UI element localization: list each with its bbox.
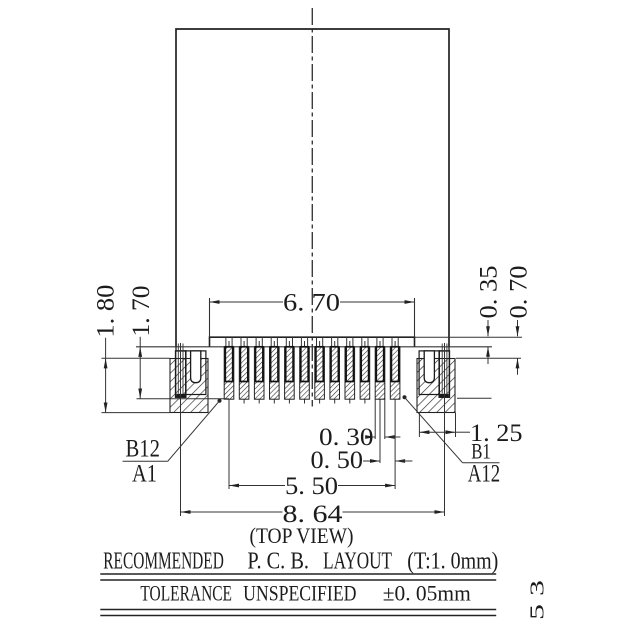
- svg-text:±0. 05mm: ±0. 05mm: [383, 581, 471, 606]
- dimension 1.25 (mounting pad width): [419, 413, 522, 447]
- double rule under note: [100, 610, 496, 616]
- caption RECOMMENDED P.C.B. LAYOUT: [103, 548, 498, 575]
- dimension 0.50 (pad pitch): [311, 404, 413, 490]
- dimension 0.35 (right, vertical): [474, 266, 503, 365]
- pad P9 (solder pad with pin): [345, 337, 355, 403]
- svg-text:RECOMMENDED: RECOMMENDED: [103, 548, 224, 575]
- svg-text:0. 50: 0. 50: [311, 445, 364, 474]
- shoulder / pad-top construction line (long): [136, 346, 492, 348]
- dimension 1.70 (left inner, vertical): [126, 286, 229, 399]
- mounting pad M2 (right, hatched): [417, 359, 455, 413]
- svg-text:TOLERANCE: TOLERANCE: [140, 581, 232, 606]
- label B12: [126, 436, 161, 463]
- dimension 0.30 (pad width): [319, 399, 400, 451]
- pad P11 (solder pad with pin): [375, 337, 385, 403]
- svg-text:LAYOUT: LAYOUT: [323, 548, 392, 575]
- right shell-leg slot (narrow): [439, 347, 449, 398]
- pad P10 (solder pad with pin): [360, 337, 370, 403]
- dimension 6.70 (top): [210, 288, 415, 338]
- svg-text:A1: A1: [132, 461, 157, 488]
- cropped rotated digit 3 (sheet edge): [527, 580, 549, 596]
- dimension 1.80 (left outer, vertical): [91, 285, 170, 413]
- label A1: [132, 461, 157, 488]
- dimension 5.50 (pad row span): [229, 404, 395, 501]
- leader line left: [123, 401, 220, 462]
- right leg centerline / 8.64 extension line: [442, 343, 447, 516]
- leader dot right (pad B1/A12): [403, 395, 407, 399]
- pad P4 (solder pad with pin): [270, 337, 280, 403]
- label B1: [471, 438, 491, 463]
- pad P6 (solder pad with pin): [300, 337, 310, 403]
- pad P1 (solder pad with pin): [224, 337, 234, 403]
- left shell-leg slot (narrow, through-hole): [176, 347, 186, 398]
- svg-text:A12: A12: [468, 461, 500, 488]
- note TOLERANCE UNSPECIFIED: [140, 581, 470, 606]
- svg-text:0. 35: 0. 35: [474, 266, 503, 319]
- mounting pad M1 (left, hatched): [170, 359, 208, 413]
- centerline (dash-dot vertical axis): [311, 8, 313, 407]
- svg-text:5. 50: 5. 50: [285, 471, 338, 500]
- pad P2 (solder pad with pin): [239, 337, 249, 403]
- svg-text:B12: B12: [126, 436, 161, 463]
- pad P8 (solder pad with pin): [330, 337, 340, 403]
- svg-text:5: 5: [527, 604, 549, 620]
- leader line right: [405, 397, 500, 462]
- connector body outline: [176, 29, 449, 347]
- dimension 8.64 (overall span): [181, 499, 445, 528]
- svg-text:(TOP VIEW): (TOP VIEW): [250, 523, 354, 548]
- pad P7 (solder pad with pin): [315, 337, 325, 403]
- svg-text:3: 3: [527, 580, 549, 596]
- right wide slot (nested outlines, rounded-bottom hole): [419, 351, 439, 395]
- pad P3 (solder pad with pin): [254, 337, 264, 403]
- double rule under caption: [100, 574, 496, 580]
- pad P5 (solder pad with pin): [285, 337, 295, 403]
- svg-text:(T:1. 0mm): (T:1. 0mm): [407, 548, 498, 575]
- dimension 0.70 (right outer, vertical): [456, 266, 533, 375]
- cropped rotated digit 5 (sheet edge): [527, 604, 549, 620]
- svg-text:0. 70: 0. 70: [504, 266, 533, 319]
- caption (TOP VIEW): [250, 523, 354, 548]
- svg-text:P. C. B.: P. C. B.: [247, 548, 309, 575]
- left leg centerline / 8.64 extension line: [178, 343, 183, 516]
- body bottom extension line (right, for 0.35/0.70 dims): [415, 336, 523, 338]
- left wide slot (nested outlines, rounded-bottom hole): [186, 351, 206, 395]
- svg-text:1. 80: 1. 80: [91, 285, 120, 338]
- label A12: [468, 461, 500, 488]
- leader dot left (pad B12/A1): [218, 399, 222, 403]
- right pad-bottom extension line: [457, 397, 492, 399]
- svg-text:1. 70: 1. 70: [126, 286, 155, 337]
- svg-text:UNSPECIFIED: UNSPECIFIED: [243, 581, 356, 606]
- svg-text:6. 70: 6. 70: [283, 288, 340, 317]
- pad P12 (solder pad with pin): [390, 337, 400, 403]
